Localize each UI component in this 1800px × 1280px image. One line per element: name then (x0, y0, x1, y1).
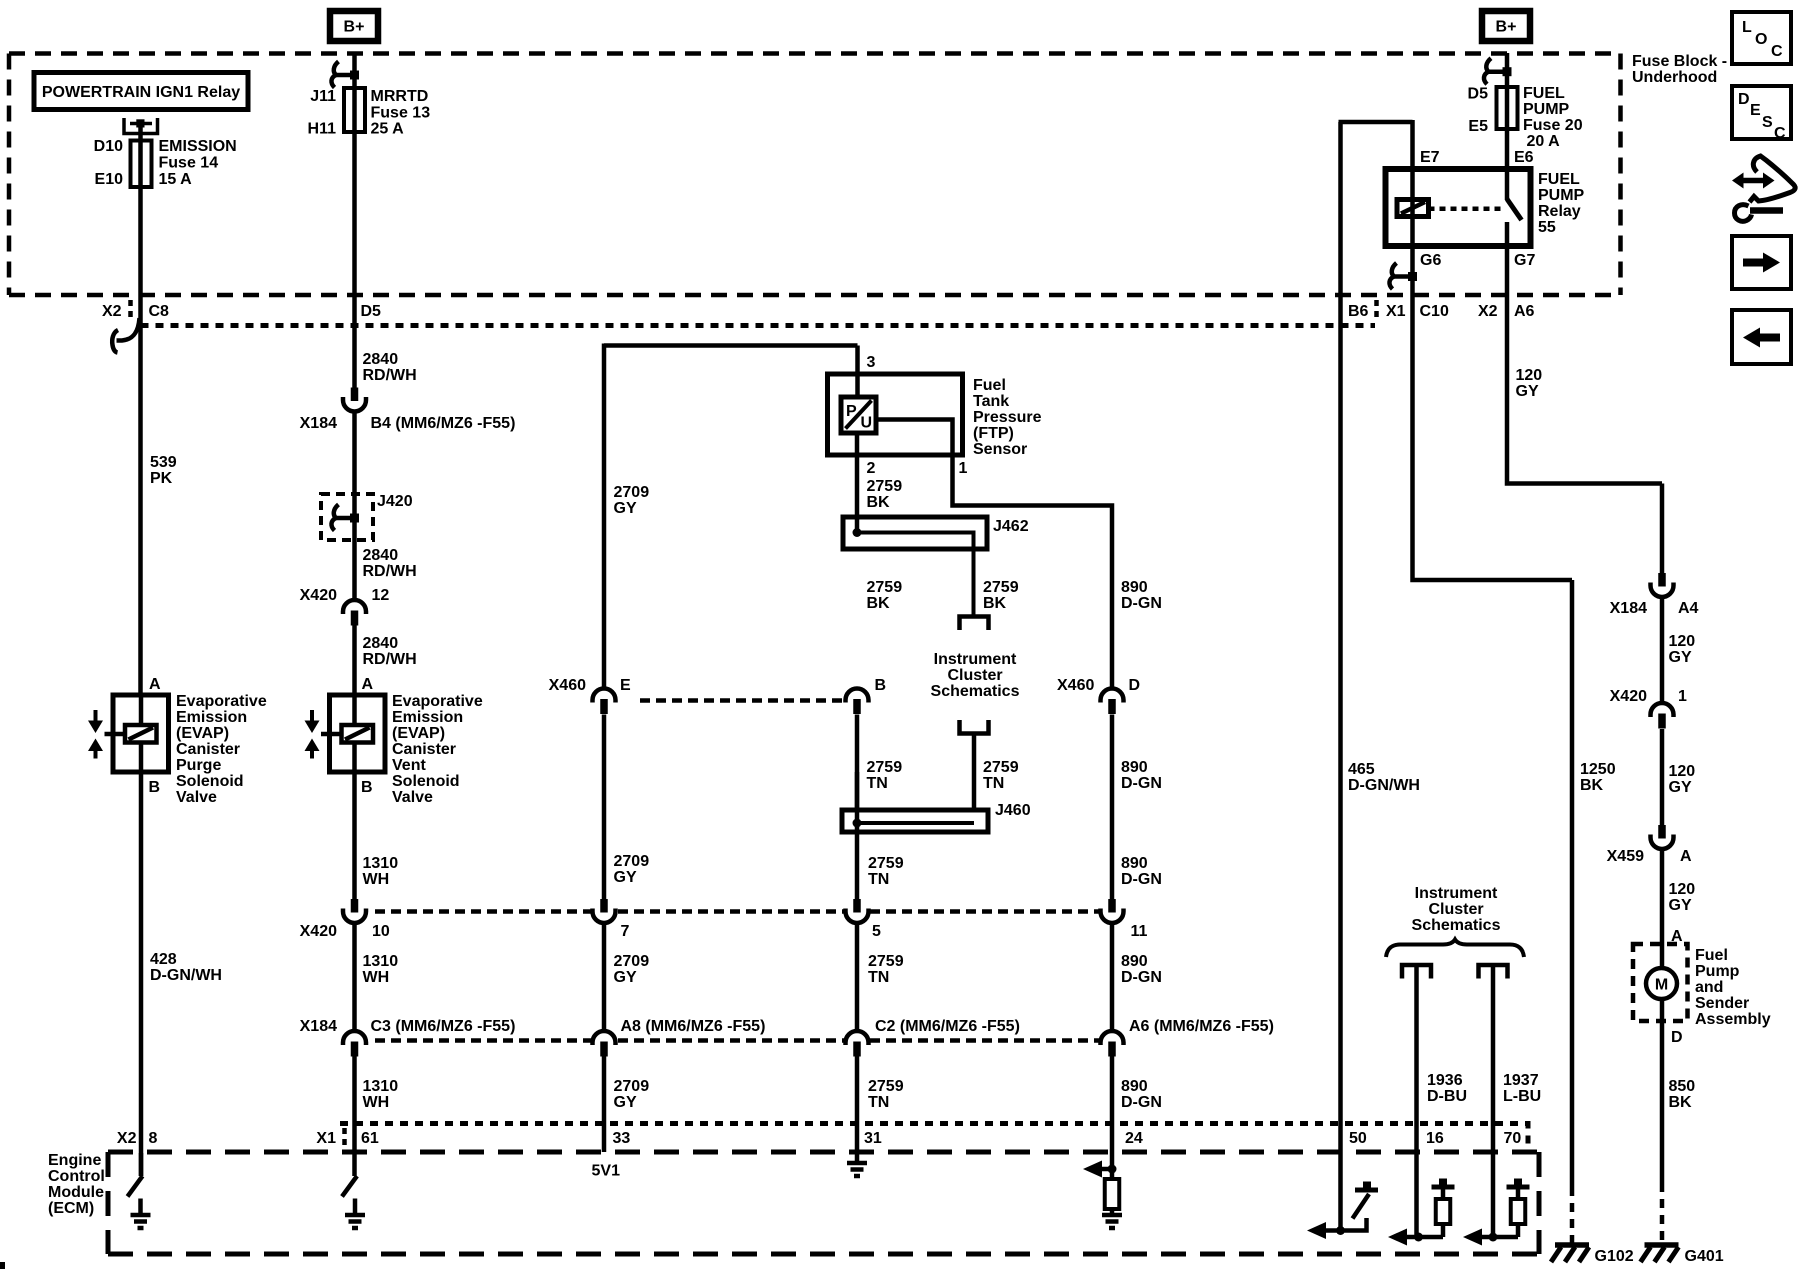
svg-text:D5: D5 (1468, 85, 1489, 102)
svg-text:2840: 2840 (363, 547, 399, 564)
svg-text:TN: TN (868, 871, 889, 888)
svg-text:X420: X420 (300, 923, 337, 940)
svg-text:GY: GY (1669, 649, 1692, 666)
svg-text:Module: Module (48, 1184, 104, 1201)
svg-text:1: 1 (959, 460, 968, 477)
svg-text:10: 10 (372, 923, 390, 940)
svg-text:2709: 2709 (614, 853, 650, 870)
svg-text:B4 (MM6/MZ6 -F55): B4 (MM6/MZ6 -F55) (371, 415, 516, 432)
svg-text:2759: 2759 (867, 478, 903, 495)
svg-text:BK: BK (1669, 1094, 1693, 1111)
svg-text:2709: 2709 (614, 1078, 650, 1095)
svg-text:C10: C10 (1420, 303, 1449, 320)
svg-text:70: 70 (1504, 1130, 1522, 1147)
svg-text:Pressure: Pressure (973, 409, 1042, 426)
svg-text:Valve: Valve (176, 789, 217, 806)
svg-text:5V1: 5V1 (592, 1163, 621, 1180)
svg-text:(EVAP): (EVAP) (392, 725, 445, 742)
svg-text:E7: E7 (1420, 149, 1440, 166)
svg-text:TN: TN (868, 969, 889, 986)
svg-text:O: O (1755, 31, 1767, 48)
svg-text:PK: PK (150, 470, 173, 487)
svg-text:2759: 2759 (867, 759, 903, 776)
svg-text:D-GN/WH: D-GN/WH (1348, 777, 1420, 794)
svg-text:WH: WH (363, 1094, 390, 1111)
svg-text:A: A (362, 676, 374, 693)
svg-text:D-GN: D-GN (1121, 969, 1162, 986)
svg-text:2759: 2759 (983, 579, 1019, 596)
svg-text:E6: E6 (1514, 149, 1534, 166)
svg-text:Underhood: Underhood (1632, 69, 1717, 86)
svg-text:2759: 2759 (868, 855, 904, 872)
svg-text:C8: C8 (149, 303, 170, 320)
svg-text:A: A (1680, 848, 1692, 865)
svg-text:465: 465 (1348, 761, 1375, 778)
svg-text:Sender: Sender (1695, 995, 1749, 1012)
svg-text:G7: G7 (1514, 252, 1535, 269)
svg-text:L: L (1742, 19, 1752, 36)
svg-text:Instrument: Instrument (1415, 885, 1498, 902)
svg-text:D: D (1671, 1029, 1683, 1046)
svg-text:2: 2 (867, 460, 876, 477)
svg-text:B+: B+ (1496, 19, 1517, 36)
svg-text:(ECM): (ECM) (48, 1200, 94, 1217)
svg-text:C3 (MM6/MZ6 -F55): C3 (MM6/MZ6 -F55) (371, 1018, 516, 1035)
svg-text:WH: WH (363, 969, 390, 986)
svg-text:Engine: Engine (48, 1152, 101, 1169)
svg-text:A8 (MM6/MZ6 -F55): A8 (MM6/MZ6 -F55) (621, 1018, 766, 1035)
svg-text:1310: 1310 (363, 1078, 399, 1095)
svg-text:1250: 1250 (1580, 761, 1616, 778)
svg-text:55: 55 (1538, 219, 1556, 236)
svg-text:Fuse Block -: Fuse Block - (1632, 53, 1727, 70)
svg-text:A6: A6 (1514, 303, 1535, 320)
svg-text:A6 (MM6/MZ6 -F55): A6 (MM6/MZ6 -F55) (1129, 1018, 1274, 1035)
svg-text:X184: X184 (1610, 600, 1647, 617)
svg-text:Schematics: Schematics (931, 683, 1020, 700)
svg-text:D-BU: D-BU (1427, 1088, 1467, 1105)
svg-text:Tank: Tank (973, 393, 1009, 410)
svg-text:Emission: Emission (392, 709, 463, 726)
svg-text:GY: GY (1669, 897, 1692, 914)
svg-text:PUMP: PUMP (1523, 101, 1570, 118)
svg-text:X184: X184 (300, 1018, 337, 1035)
svg-text:Pump: Pump (1695, 963, 1740, 980)
svg-text:GY: GY (614, 1094, 637, 1111)
svg-text:Evaporative: Evaporative (392, 693, 483, 710)
svg-text:B+: B+ (344, 19, 365, 36)
svg-text:B: B (361, 779, 373, 796)
svg-text:Fuse 13: Fuse 13 (371, 104, 431, 121)
svg-text:Fuel: Fuel (1695, 947, 1728, 964)
svg-text:8: 8 (149, 1130, 158, 1147)
svg-text:15 A: 15 A (159, 171, 193, 188)
svg-text:24: 24 (1125, 1130, 1143, 1147)
svg-text:X420: X420 (300, 587, 337, 604)
svg-text:D-GN: D-GN (1121, 871, 1162, 888)
svg-text:C2 (MM6/MZ6 -F55): C2 (MM6/MZ6 -F55) (875, 1018, 1020, 1035)
svg-text:16: 16 (1426, 1130, 1444, 1147)
svg-text:Valve: Valve (392, 789, 433, 806)
svg-text:890: 890 (1121, 1078, 1148, 1095)
svg-text:Cluster: Cluster (1428, 901, 1483, 918)
svg-text:D5: D5 (361, 303, 382, 320)
svg-text:850: 850 (1669, 1078, 1696, 1095)
svg-text:BK: BK (867, 595, 891, 612)
svg-text:RD/WH: RD/WH (363, 367, 417, 384)
svg-text:120: 120 (1669, 763, 1696, 780)
svg-text:1937: 1937 (1503, 1072, 1539, 1089)
svg-text:X184: X184 (300, 415, 337, 432)
svg-text:WH: WH (363, 871, 390, 888)
svg-text:M: M (1655, 977, 1668, 994)
svg-text:Vent: Vent (392, 757, 426, 774)
svg-text:1936: 1936 (1427, 1072, 1463, 1089)
svg-text:50: 50 (1349, 1130, 1367, 1147)
svg-text:2709: 2709 (614, 953, 650, 970)
svg-text:FUEL: FUEL (1523, 85, 1565, 102)
svg-text:X1: X1 (316, 1130, 336, 1147)
svg-text:PUMP: PUMP (1538, 187, 1585, 204)
svg-text:BK: BK (1580, 777, 1604, 794)
svg-text:GY: GY (1669, 779, 1692, 796)
svg-text:Fuse 14: Fuse 14 (159, 155, 219, 172)
svg-text:20 A: 20 A (1527, 133, 1561, 150)
svg-text:RD/WH: RD/WH (363, 651, 417, 668)
svg-text:and: and (1695, 979, 1723, 996)
svg-text:L-BU: L-BU (1503, 1088, 1541, 1105)
svg-text:61: 61 (361, 1130, 379, 1147)
svg-text:2709: 2709 (614, 484, 650, 501)
svg-text:Relay: Relay (1538, 203, 1581, 220)
svg-text:D10: D10 (94, 138, 123, 155)
svg-text:G6: G6 (1420, 252, 1441, 269)
svg-text:2759: 2759 (868, 1078, 904, 1095)
svg-text:1: 1 (1678, 688, 1687, 705)
svg-text:(EVAP): (EVAP) (176, 725, 229, 742)
svg-text:TN: TN (867, 775, 888, 792)
svg-text:D: D (1738, 91, 1750, 108)
svg-text:FUEL: FUEL (1538, 171, 1580, 188)
svg-text:POWERTRAIN IGN1 Relay: POWERTRAIN IGN1 Relay (42, 84, 240, 101)
svg-text:BK: BK (867, 494, 891, 511)
svg-text:X460: X460 (1057, 677, 1094, 694)
svg-text:G401: G401 (1685, 1248, 1724, 1265)
svg-text:E: E (1750, 102, 1761, 119)
svg-text:539: 539 (150, 454, 177, 471)
svg-text:E5: E5 (1468, 118, 1488, 135)
svg-text:X460: X460 (549, 677, 586, 694)
svg-text:C: C (1771, 43, 1783, 60)
svg-text:E10: E10 (95, 171, 124, 188)
svg-text:MRRTD: MRRTD (371, 88, 429, 105)
svg-text:Solenoid: Solenoid (176, 773, 244, 790)
svg-text:J460: J460 (995, 802, 1031, 819)
svg-text:A4: A4 (1678, 600, 1699, 617)
svg-text:890: 890 (1121, 855, 1148, 872)
svg-text:31: 31 (864, 1130, 882, 1147)
svg-text:1310: 1310 (363, 953, 399, 970)
svg-text:B: B (875, 677, 887, 694)
svg-text:U: U (861, 415, 873, 432)
svg-text:Fuse 20: Fuse 20 (1523, 117, 1583, 134)
svg-text:3: 3 (867, 354, 876, 371)
svg-text:120: 120 (1669, 881, 1696, 898)
svg-text:2840: 2840 (363, 635, 399, 652)
svg-text:Instrument: Instrument (934, 651, 1017, 668)
svg-text:25 A: 25 A (371, 121, 405, 138)
svg-text:BK: BK (983, 595, 1007, 612)
svg-text:H11: H11 (308, 121, 337, 138)
svg-text:2759: 2759 (868, 953, 904, 970)
svg-text:5: 5 (872, 923, 881, 940)
svg-text:2759: 2759 (867, 579, 903, 596)
svg-text:P: P (846, 403, 857, 420)
svg-text:Emission: Emission (176, 709, 247, 726)
svg-text:Fuel: Fuel (973, 377, 1006, 394)
svg-text:Cluster: Cluster (947, 667, 1002, 684)
svg-text:Canister: Canister (392, 741, 456, 758)
svg-text:GY: GY (614, 869, 637, 886)
svg-text:120: 120 (1516, 367, 1543, 384)
svg-text:J420: J420 (377, 493, 413, 510)
svg-text:J462: J462 (993, 518, 1029, 535)
svg-text:1310: 1310 (363, 855, 399, 872)
svg-text:Assembly: Assembly (1695, 1011, 1771, 1028)
svg-text:GY: GY (1516, 383, 1539, 400)
svg-text:890: 890 (1121, 759, 1148, 776)
svg-text:890: 890 (1121, 953, 1148, 970)
svg-text:J11: J11 (310, 88, 336, 105)
svg-text:428: 428 (150, 951, 177, 968)
svg-text:11: 11 (1131, 923, 1148, 940)
svg-text:E: E (620, 677, 631, 694)
svg-text:(FTP): (FTP) (973, 425, 1014, 442)
svg-text:RD/WH: RD/WH (363, 563, 417, 580)
svg-text:D: D (1129, 677, 1141, 694)
svg-text:TN: TN (868, 1094, 889, 1111)
svg-text:D-GN: D-GN (1121, 595, 1162, 612)
svg-text:G102: G102 (1595, 1248, 1634, 1265)
svg-text:890: 890 (1121, 579, 1148, 596)
svg-text:Solenoid: Solenoid (392, 773, 460, 790)
svg-text:2840: 2840 (363, 351, 399, 368)
svg-text:D-GN: D-GN (1121, 1094, 1162, 1111)
svg-text:7: 7 (621, 923, 630, 940)
svg-text:Canister: Canister (176, 741, 240, 758)
svg-text:X420: X420 (1610, 688, 1647, 705)
svg-text:Evaporative: Evaporative (176, 693, 267, 710)
svg-text:GY: GY (614, 500, 637, 517)
svg-text:2759: 2759 (983, 759, 1019, 776)
svg-text:GY: GY (614, 969, 637, 986)
svg-text:Sensor: Sensor (973, 441, 1027, 458)
svg-text:120: 120 (1669, 633, 1696, 650)
svg-text:D-GN: D-GN (1121, 775, 1162, 792)
svg-text:B: B (149, 779, 161, 796)
svg-text:B6: B6 (1348, 303, 1369, 320)
svg-text:X459: X459 (1607, 848, 1644, 865)
svg-text:S: S (1762, 114, 1773, 131)
svg-text:C: C (1774, 125, 1786, 142)
svg-text:X2: X2 (117, 1130, 137, 1147)
svg-text:EMISSION: EMISSION (159, 138, 237, 155)
svg-text:Schematics: Schematics (1412, 917, 1501, 934)
svg-text:D-GN/WH: D-GN/WH (150, 967, 222, 984)
svg-text:Purge: Purge (176, 757, 221, 774)
svg-text:A: A (149, 676, 161, 693)
svg-text:X2: X2 (1478, 303, 1498, 320)
svg-text:33: 33 (613, 1130, 631, 1147)
svg-text:X1: X1 (1386, 303, 1406, 320)
svg-text:Control: Control (48, 1168, 105, 1185)
svg-text:X2: X2 (102, 303, 122, 320)
svg-text:12: 12 (372, 587, 390, 604)
svg-text:TN: TN (983, 775, 1004, 792)
